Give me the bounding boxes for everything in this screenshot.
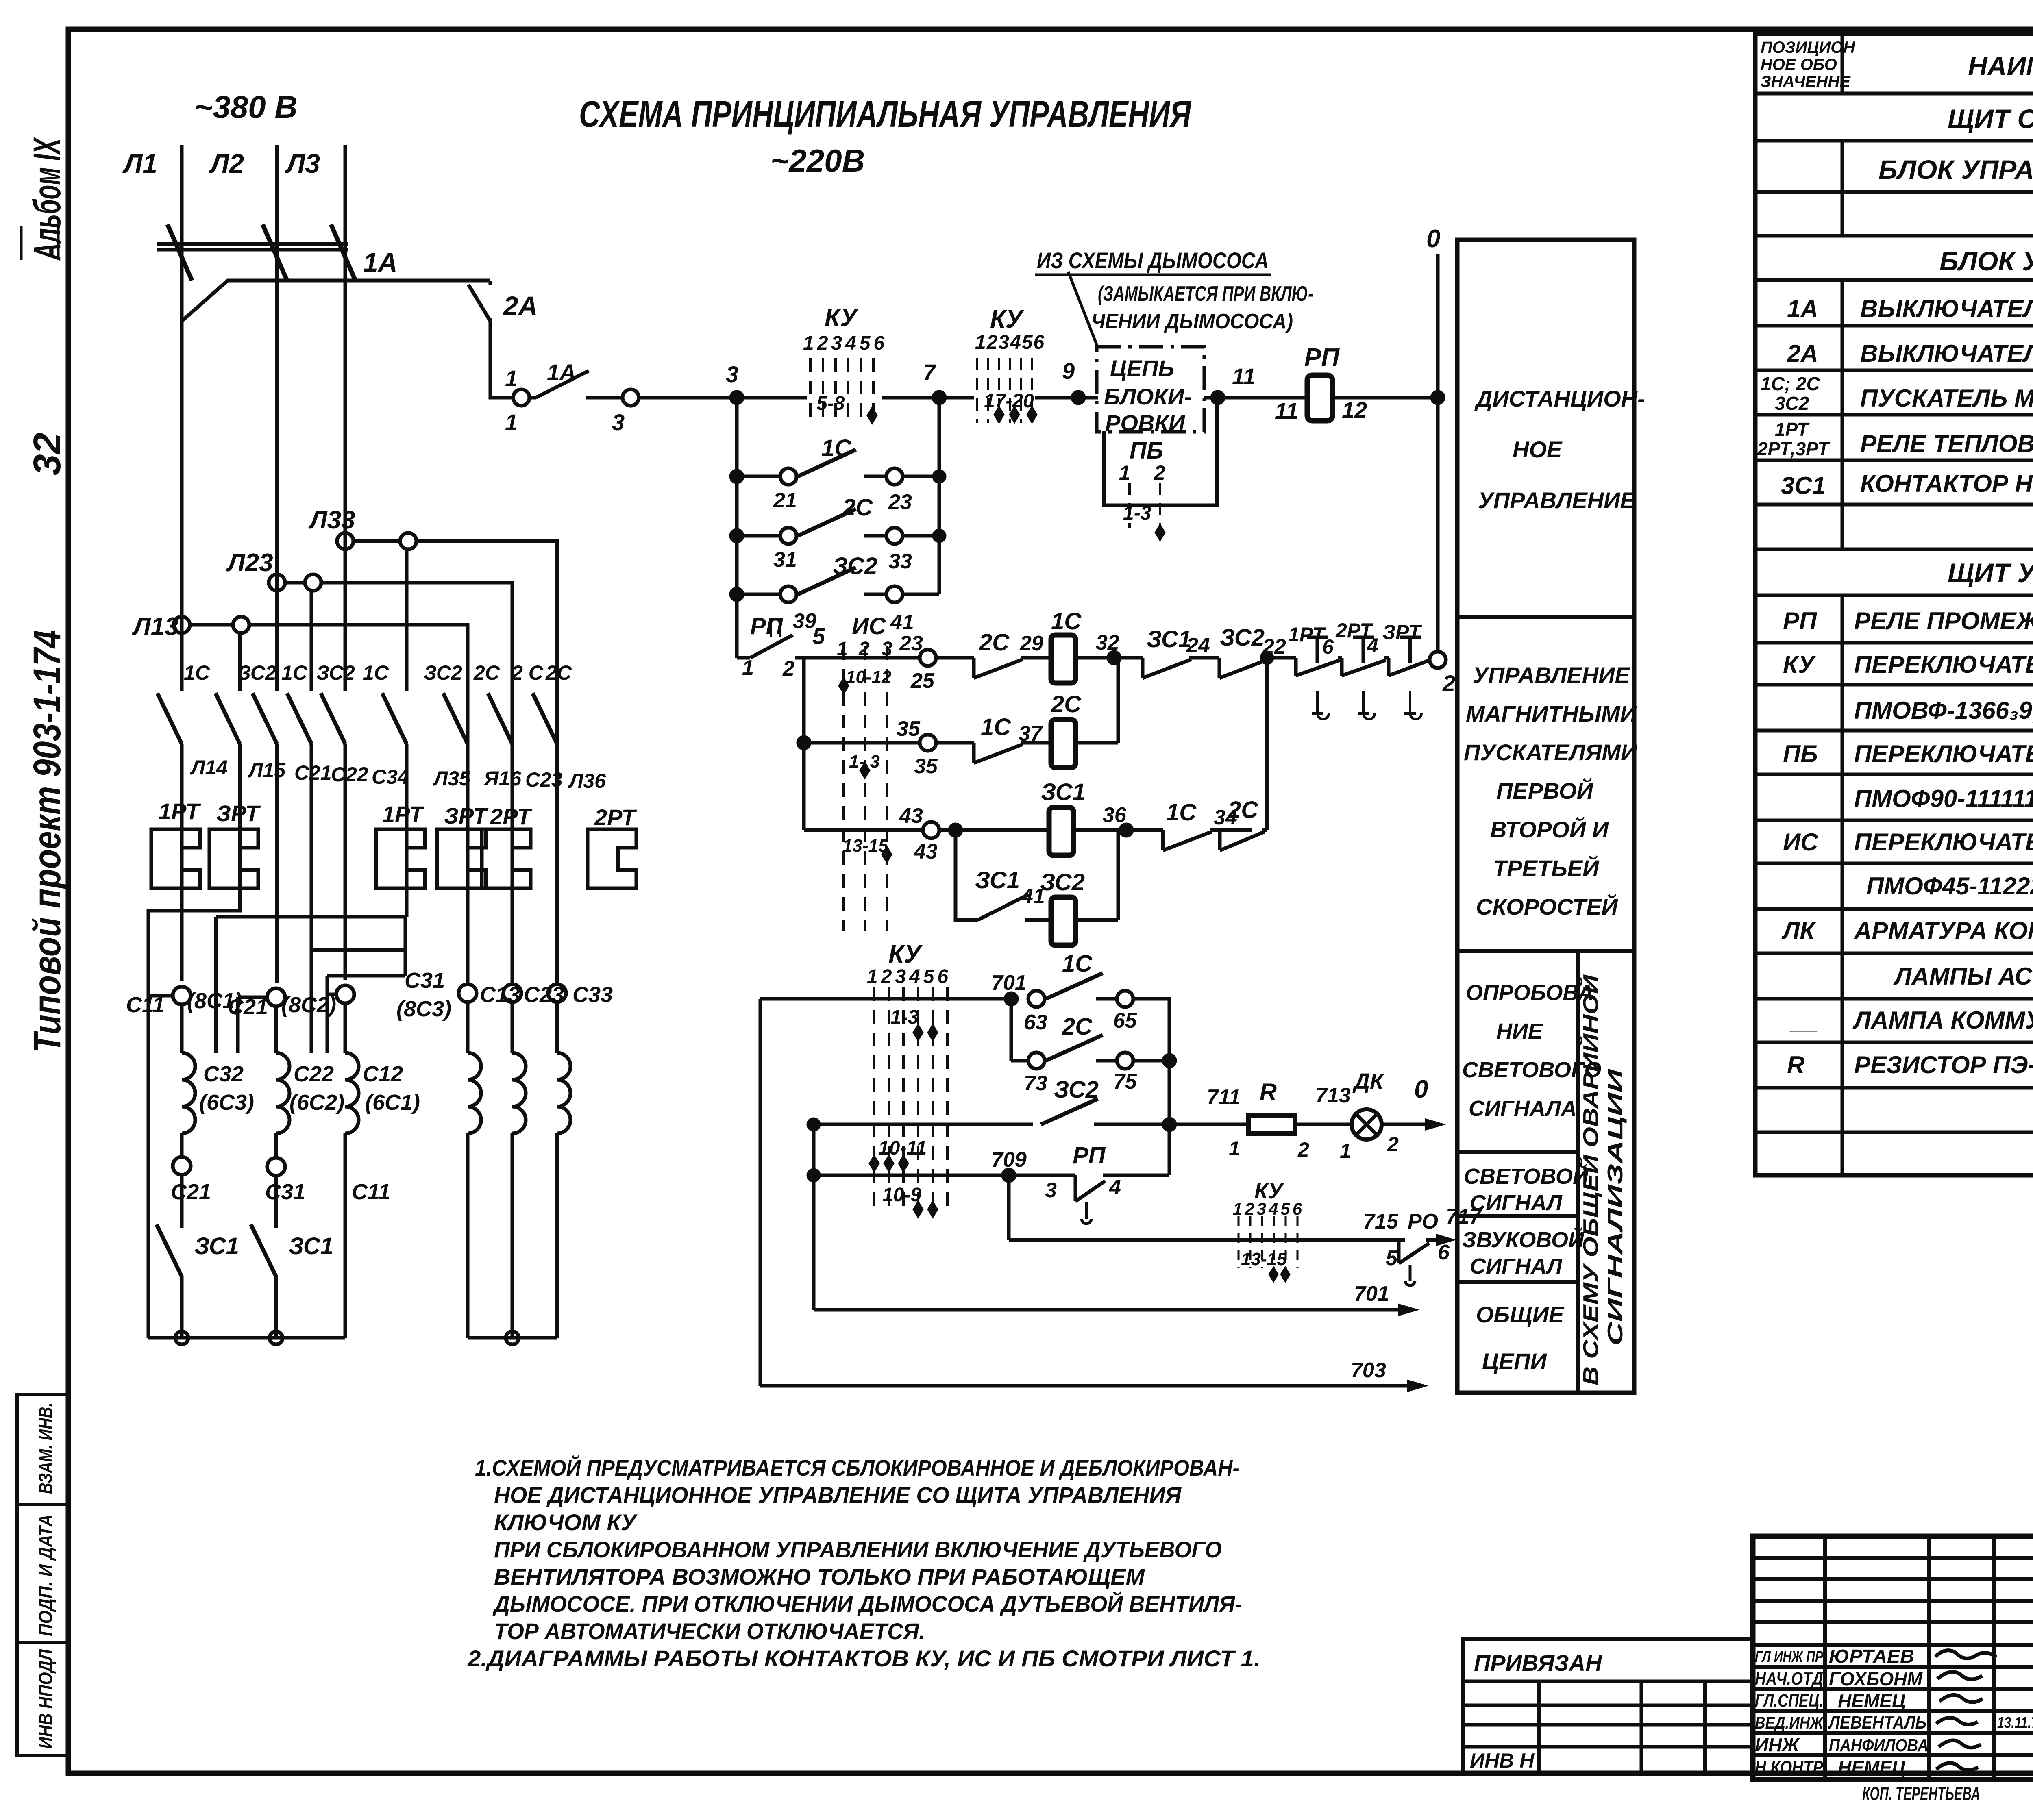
left margin strip box Vzam inv [17, 1394, 68, 1504]
L13 tap second circle [233, 617, 249, 633]
RP NC contact bottom of rail1 [737, 635, 804, 658]
svg-text:ВЫКЛЮЧАТЕЛЬ АВТОМАТИЧЕСКИЙ: ВЫКЛЮЧАТЕЛЬ АВТОМАТИЧЕСКИЙ [1860, 295, 2033, 322]
svg-text:ИНЖ: ИНЖ [1755, 1734, 1800, 1755]
feeder vertical 2 [812, 1124, 816, 1310]
coil on c1260 [512, 1002, 526, 1338]
ladder1 rail from junction3 [735, 398, 739, 658]
switch 1A blade [536, 371, 589, 398]
svg-text:БЛОК УПРАВЛЕНИЯ: БЛОК УПРАВЛЕНИЯ [1878, 154, 2033, 185]
title block upper-left small grid rows [1753, 1558, 2033, 1645]
svg-text:2.ДИАГРАММЫ РАБОТЫ КОНТАКТОВ: 2.ДИАГРАММЫ РАБОТЫ КОНТАКТОВ КУ, ИС И ПБ… [467, 1646, 1260, 1671]
right group C13 circle [459, 984, 477, 1002]
rail2 vertical [802, 658, 806, 830]
svg-text:С22: С22 [331, 763, 368, 786]
contactor 3C1 blade left [157, 1224, 182, 1276]
svg-text:Л3: Л3 [285, 148, 320, 178]
svg-text:НОЕ ОБО: НОЕ ОБО [1761, 56, 1837, 74]
circle C11 top [173, 987, 191, 1005]
svg-text:НИЕ: НИЕ [1496, 1019, 1543, 1044]
svg-text:ИНВ НПОДЛ: ИНВ НПОДЛ [35, 1649, 56, 1749]
svg-text:1: 1 [742, 656, 754, 680]
svg-text:1С: 1С [1062, 950, 1093, 977]
KU3 diamonds 1-3 [913, 1024, 938, 1041]
KU2 diamonds [994, 407, 1037, 423]
svg-text:4: 4 [1367, 634, 1378, 657]
right function-zone column [1457, 240, 1634, 1393]
wire box to node 11 [1204, 396, 1244, 400]
svg-text:37: 37 [1019, 722, 1043, 746]
thermal contact 2RT [1342, 637, 1389, 676]
circle C31 top [336, 985, 354, 1003]
svg-text:ПБ: ПБ [1130, 437, 1163, 464]
wire below bottom circles to 3C1 blades [182, 1175, 276, 1338]
svg-text:2А: 2А [503, 291, 538, 321]
wire R to lamp DK [1295, 1123, 1352, 1126]
main rung wire node7 to KU2 [939, 396, 974, 400]
svg-text:Л35: Л35 [433, 767, 471, 790]
svg-text:1С: 1С [281, 661, 308, 684]
svg-text:ГЛ ИНЖ ПР: ГЛ ИНЖ ПР [1755, 1648, 1824, 1666]
signal rung1 wire left [760, 997, 1004, 1001]
contact RP NO on zvukovoy line [1399, 1240, 1438, 1263]
KU5 diamonds [1269, 1267, 1290, 1282]
coil 3C1 [1049, 807, 1073, 855]
jog horizontal H2 from c766 [311, 948, 405, 952]
svg-text:3: 3 [612, 409, 625, 435]
zone divider oprobovanie / svetovoy [1457, 1150, 1578, 1154]
PB dashed contacts [1130, 483, 1160, 528]
svg-text:6: 6 [1438, 1241, 1450, 1264]
wire node3 circle to junction 3 [639, 396, 797, 400]
zone inner vertical for rotated text [1576, 951, 1580, 1393]
svg-text:13-15: 13-15 [1241, 1249, 1287, 1269]
svg-text:ВЕД.ИНЖ: ВЕД.ИНЖ [1755, 1713, 1824, 1732]
PB diamond [1155, 524, 1165, 541]
ladder1 rung1 dot [731, 471, 742, 482]
svg-text:ПОЗИЦИОН: ПОЗИЦИОН [1761, 39, 1855, 57]
svg-text:СИГНАЛ: СИГНАЛ [1470, 1254, 1563, 1279]
svg-text:1-3: 1-3 [890, 1007, 919, 1028]
svg-text:2РТ,3РТ: 2РТ,3РТ [1757, 438, 1831, 459]
resistor R [1249, 1115, 1295, 1134]
svg-text:2 С: 2 С [511, 661, 544, 684]
svg-text:23: 23 [899, 632, 923, 655]
contact column 1150 gap [466, 625, 470, 691]
rung1 circle 63 [1028, 991, 1045, 1007]
svg-text:711: 711 [1207, 1085, 1241, 1109]
KU3 diamonds 10-11 [869, 1155, 908, 1172]
thermal relay 1RT box c447 [151, 829, 200, 888]
title block outer [1753, 1536, 2033, 1779]
wire lamp to arrow 0 [1382, 1123, 1425, 1126]
arrowhead 717 [1436, 1234, 1455, 1246]
svg-text:ДЫМОСОСЕ. ПРИ ОТКЛЮЧЕНИИ ДЫМ: ДЫМОСОСЕ. ПРИ ОТКЛЮЧЕНИИ ДЫМОСОСА ДУТЬЕВ… [492, 1591, 1242, 1617]
svg-text:1А: 1А [547, 359, 576, 385]
svg-text:1С; 2С: 1С; 2С [1761, 373, 1820, 394]
svg-text:709: 709 [991, 1148, 1027, 1172]
svg-text:12: 12 [1342, 397, 1367, 423]
svg-text:5: 5 [1386, 1246, 1398, 1270]
junction 3 dot [731, 392, 742, 403]
svg-text:ДК: ДК [1352, 1069, 1385, 1094]
svg-text:НЕМЕЦ: НЕМЕЦ [1838, 1690, 1905, 1711]
svg-text:Л36: Л36 [568, 770, 606, 792]
svg-text:КУ: КУ [1783, 651, 1816, 678]
ladder1 rung2 wire right [864, 534, 939, 538]
svg-text:ПЕРЕКЛЮЧАТЕЛЬ: ПЕРЕКЛЮЧАТЕЛЬ [1854, 651, 2033, 678]
svg-text:1- 3: 1- 3 [849, 752, 880, 772]
circle C21 top [267, 988, 285, 1006]
riser rungB to rungA [1117, 658, 1120, 743]
svg-text:3С1: 3С1 [1781, 472, 1826, 499]
zone divider distantsionnoe / upravlenie [1457, 615, 1634, 619]
junction 22 dot [1262, 652, 1272, 663]
svg-text:123456: 123456 [803, 333, 888, 354]
rungB circle 35 [920, 735, 936, 751]
svg-text:УПРАВЛЕНИЕ: УПРАВЛЕНИЕ [1473, 662, 1630, 688]
svg-text:ЗС1: ЗС1 [289, 1233, 333, 1259]
breaker 1A blade on L2 [263, 224, 287, 281]
rungC wire to coil 3C1 [939, 828, 1049, 832]
svg-text:КОНТАКТОР НУЛЕВОЙ ТОЧКИ: КОНТАКТОР НУЛЕВОЙ ТОЧКИ [1860, 470, 2033, 497]
svg-text:17-20: 17-20 [984, 390, 1034, 412]
svg-text:РО: РО [1408, 1210, 1438, 1233]
svg-text:С23: С23 [525, 768, 563, 791]
node 9 junction dot [1073, 392, 1084, 403]
svg-text:29: 29 [1019, 632, 1043, 655]
right group C23 circle [503, 984, 521, 1002]
contact blades row (1C 3C2 groups) [157, 693, 557, 744]
svg-text:2С: 2С [1228, 797, 1258, 823]
bypass wire to coil 3C2 [1025, 918, 1051, 922]
svg-text:2РТ: 2РТ [594, 805, 637, 830]
drop 2487 to rung2 [1010, 999, 1013, 1061]
svg-text:Л2: Л2 [209, 148, 244, 178]
svg-text:9: 9 [1062, 358, 1075, 384]
rungC corner from rail2 [804, 828, 923, 832]
svg-text:715: 715 [1363, 1210, 1399, 1233]
svg-text:43: 43 [914, 840, 938, 863]
svg-text:ПМОФ45-112222 /П-Д1: ПМОФ45-112222 /П-Д1 [1866, 872, 2033, 900]
svg-text:ПМОФ90-111111 /П-Д42: ПМОФ90-111111 /П-Д42 [1854, 785, 2033, 812]
parts table grid [1755, 34, 2033, 1175]
KU1 diamond tip [867, 407, 877, 424]
bypass wire coil to riser [1075, 918, 1118, 922]
svg-text:1: 1 [1119, 461, 1130, 484]
svg-text:2РТ: 2РТ [490, 804, 533, 829]
line 701 out [814, 1308, 1399, 1312]
contact RP NO on rung4 [1075, 1175, 1169, 1201]
svg-text:33: 33 [888, 550, 912, 573]
svg-text:ИС: ИС [1783, 828, 1819, 856]
svg-text:1С: 1С [184, 661, 210, 684]
contact 1C NO blade [1046, 973, 1103, 999]
svg-text:36: 36 [1103, 803, 1127, 827]
coil 2C [1051, 720, 1075, 768]
contact column 1000 from L33 [405, 549, 409, 917]
contact 3C1 NC on rungA [1143, 658, 1219, 678]
svg-text:ТОР АВТОМАТИЧЕСКИ ОТКЛЮЧАЕТ: ТОР АВТОМАТИЧЕСКИ ОТКЛЮЧАЕТСЯ. [494, 1618, 925, 1644]
contact 2C NO blade [1046, 1035, 1103, 1061]
relay coil RP [1307, 375, 1332, 421]
ladder1 rung2 dot [731, 530, 742, 541]
coil on c849 [345, 1003, 359, 1338]
svg-text:11: 11 [1232, 363, 1256, 389]
svg-text:ЩИТ СИЛОВОЙ УПРАВЛЕНИЯ: ЩИТ СИЛОВОЙ УПРАВЛЕНИЯ [1948, 103, 2033, 134]
svg-text:ИНВ Н: ИНВ Н [1470, 1749, 1535, 1772]
svg-text:КОП. ТЕРЕНТЬЕВА: КОП. ТЕРЕНТЬЕВА [1862, 1783, 1980, 1804]
jog horizontal H3 [327, 974, 405, 978]
svg-text:С31: С31 [265, 1180, 305, 1204]
svg-text:СИГНАЛИЗАЦИИ: СИГНАЛИЗАЦИИ [1604, 1068, 1627, 1346]
rung4 wire to RP contact [1009, 1174, 1075, 1177]
junction rung2 right dot [1164, 1055, 1175, 1066]
L13 tap circle on L1 [174, 617, 190, 633]
svg-text:ПЕРЕКЛЮЧАТЕЛЬ УНИВЕРСАЛЬНЫЙ: ПЕРЕКЛЮЧАТЕЛЬ УНИВЕРСАЛЬНЫЙ [1854, 828, 2033, 856]
svg-text:Я16: Я16 [483, 767, 522, 790]
coil on c447 [182, 1005, 195, 1157]
main rung wire through KU1 to node7 [882, 396, 939, 400]
lamp DK circle [1352, 1109, 1382, 1139]
left margin strip box Podp i data [17, 1504, 68, 1642]
svg-text:ПРИ СБЛОКИРОВАННОМ УПРАВЛЕНИ: ПРИ СБЛОКИРОВАННОМ УПРАВЛЕНИИ ВКЛЮЧЕНИЕ … [494, 1537, 1222, 1562]
svg-text:Альбом ІХ: Альбом ІХ [26, 137, 69, 261]
stub to C21 circle [238, 997, 268, 1053]
svg-text:НОЕ: НОЕ [1513, 437, 1563, 462]
svg-text:1РТ: 1РТ [159, 798, 201, 824]
IS switch dashes [844, 646, 887, 931]
ladder1 rung3 circle right [886, 586, 903, 602]
lamp DK cross [1356, 1114, 1377, 1135]
svg-text:ГОХБОНМ: ГОХБОНМ [1829, 1668, 1923, 1690]
svg-text:3: 3 [726, 361, 738, 387]
svg-text:БЛОК УПРАВЛЕНИЯ: БЛОК УПРАВЛЕНИЯ [1939, 246, 2033, 276]
svg-text:ЗРТ: ЗРТ [444, 803, 489, 828]
KU group5 dashes [1239, 1216, 1297, 1268]
svg-text:УПРАВЛЕНИЕ: УПРАВЛЕНИЕ [1478, 487, 1636, 513]
svg-text:41: 41 [890, 611, 914, 634]
svg-text:22: 22 [1262, 635, 1286, 659]
svg-text:ЛК: ЛК [1781, 917, 1816, 944]
riser bypass to rungC [1117, 830, 1120, 920]
svg-text:СКОРОСТЕЙ: СКОРОСТЕЙ [1476, 894, 1618, 920]
line 703 out [760, 1384, 1408, 1388]
bottom bus left group [148, 1336, 345, 1340]
svg-text:2: 2 [1442, 670, 1455, 696]
svg-text:2: 2 [1154, 461, 1165, 484]
wire node1 to 1A contact [529, 396, 536, 400]
thermal relay 3RT box c1150 [437, 829, 486, 888]
bus circle at 679 [270, 1331, 283, 1344]
right group C33 circle [548, 984, 566, 1002]
svg-text:ЗРТ: ЗРТ [216, 800, 261, 826]
tsep blokirovki dash-dot box [1097, 347, 1204, 432]
svg-text:32: 32 [1096, 631, 1119, 655]
svg-text:1: 1 [505, 409, 518, 435]
svg-text:ЗС2: ЗС2 [238, 661, 276, 684]
title block signature rows [1753, 1667, 2033, 1755]
thermal relay 1RT box c1000 [376, 829, 425, 888]
rungA wire to 2C contact [936, 656, 974, 660]
privyazan columns [1539, 1681, 1705, 1773]
svg-text:Л23: Л23 [226, 549, 273, 577]
node 7 junction dot [934, 392, 945, 403]
svg-text:5: 5 [812, 623, 825, 649]
svg-text:R: R [1787, 1051, 1804, 1079]
svg-text:1С: 1С [821, 435, 852, 461]
svg-text:ПБ: ПБ [1783, 740, 1818, 768]
svg-text:2: 2 [858, 638, 870, 660]
svg-text:(8С3): (8С3) [396, 997, 451, 1021]
svg-text:С22: С22 [294, 1062, 334, 1086]
rungB left dot [798, 737, 810, 748]
bus circle at 1260 [506, 1331, 519, 1344]
svg-text:63: 63 [1024, 1011, 1047, 1034]
svg-text:С12: С12 [363, 1062, 403, 1086]
svg-text:КУ: КУ [990, 305, 1024, 333]
stub to C11 circle [148, 994, 174, 998]
rung1 circle 65 [1117, 991, 1133, 1007]
phase line L1 [180, 145, 184, 981]
drop 2876 to rung3 [1168, 1061, 1171, 1124]
svg-text:РП: РП [1783, 607, 1818, 635]
tap wire from L1 to 2A [182, 281, 490, 321]
svg-text:5-8: 5-8 [816, 393, 845, 414]
svg-text:РЕЛЕ ТЕПЛОВОЕ: РЕЛЕ ТЕПЛОВОЕ [1860, 430, 2033, 457]
svg-text:123456: 123456 [1233, 1199, 1304, 1218]
svg-text:701: 701 [991, 971, 1027, 995]
svg-text:1: 1 [505, 365, 518, 391]
thermal 3RT release tick [1404, 691, 1421, 719]
svg-text:0: 0 [1414, 1075, 1428, 1103]
svg-text:1РТ: 1РТ [1288, 623, 1326, 646]
svg-text:75: 75 [1113, 1070, 1137, 1094]
IS diamonds [839, 678, 892, 863]
svg-text:ВЗАМ. ИНВ.: ВЗАМ. ИНВ. [35, 1403, 56, 1494]
svg-text:1-3: 1-3 [1123, 502, 1151, 524]
svg-text:703: 703 [1351, 1359, 1386, 1382]
RP contact release hook [771, 619, 780, 637]
svg-text:24: 24 [1186, 634, 1210, 657]
ladder1 rung3 wire right [864, 593, 939, 596]
node 1 circle [513, 389, 529, 406]
rungA wire coil to dot32 [1075, 656, 1143, 660]
contact 1C NC on rungB [974, 743, 1051, 763]
rung2 circle 73 [1028, 1052, 1045, 1069]
svg-text:ЩИТ УПРАВЛЕНИЯ: ЩИТ УПРАВЛЕНИЯ [1948, 558, 2033, 588]
svg-text:ОПРОБОВА: ОПРОБОВА [1466, 981, 1593, 1005]
ladder1 rung2 wire left [737, 534, 780, 538]
svg-text:С34: С34 [372, 765, 409, 788]
ladder1 rung1 blade 1C [798, 450, 856, 476]
main rung wire junction3 to KU1 [736, 396, 807, 400]
contactor 3C1 blade right [251, 1224, 276, 1276]
callout leader line [1068, 272, 1098, 348]
svg-text:ИС: ИС [852, 613, 886, 639]
rung3 feeder dot [808, 1119, 819, 1130]
node 3 circle [623, 389, 639, 406]
ladder1 rung3 wire left [737, 593, 780, 596]
svg-text:2А: 2А [1787, 340, 1818, 367]
svg-text:1С: 1С [981, 714, 1011, 740]
svg-text:Л15: Л15 [248, 759, 286, 782]
coil 3C2 [1051, 897, 1075, 945]
ladder1 rung3 dot [731, 589, 742, 600]
rungB wire left [804, 741, 920, 745]
svg-text:СВЕТОВОЙ: СВЕТОВОЙ [1464, 1163, 1589, 1189]
svg-text:ЗВУКОВОЙ: ЗВУКОВОЙ [1462, 1227, 1585, 1252]
svg-text:НАЧ.ОТД: НАЧ.ОТД [1755, 1669, 1823, 1689]
L33 tap second circle [400, 533, 416, 549]
svg-text:Л14: Л14 [190, 756, 228, 779]
rungA wire left [804, 656, 920, 660]
svg-text:БЛОКИ-: БЛОКИ- [1104, 384, 1192, 409]
svg-text:КЛЮЧОМ КУ: КЛЮЧОМ КУ [494, 1509, 638, 1535]
svg-text:МАГНИТНЫМИ: МАГНИТНЫМИ [1466, 701, 1637, 726]
left margin strip box Inv N podl [17, 1642, 68, 1755]
svg-text:11: 11 [1275, 398, 1298, 424]
svg-text:КУ: КУ [825, 304, 859, 332]
jog vertical 805 [326, 976, 329, 1053]
contact column 766 from L23 [310, 591, 313, 1053]
title block [1753, 1536, 2033, 1779]
contact 3C1 NO blade on bypass [978, 894, 1029, 920]
thermal 2RT release tick [1358, 691, 1375, 719]
breaker 1A blade on L3 [331, 224, 355, 281]
svg-text:1С: 1С [1166, 799, 1197, 826]
svg-text:НАИМЕНОВАНИЕ: НАИМЕНОВАНИЕ [1968, 51, 2033, 81]
svg-text:__: __ [1789, 1007, 1818, 1034]
rungC wire coil to contacts [1073, 828, 1163, 832]
thermal 1RT release tick [1312, 691, 1329, 719]
svg-text:СИГНАЛА: СИГНАЛА [1469, 1096, 1577, 1121]
node7 vertical rail [938, 398, 941, 594]
svg-text:РП: РП [1304, 344, 1340, 372]
svg-text:РП: РП [750, 613, 784, 639]
svg-text:2С: 2С [473, 661, 500, 684]
callout underline [1035, 274, 1271, 276]
svg-text:(6С3): (6С3) [199, 1090, 254, 1115]
svg-text:23: 23 [888, 490, 912, 514]
contact 3C2 NO blade [1041, 1099, 1098, 1124]
node7 rail junction dots [934, 471, 945, 482]
svg-text:СХЕМА ПРИНЦИПИАЛЬНАЯ УПРАВЛЕ: СХЕМА ПРИНЦИПИАЛЬНАЯ УПРАВЛЕНИЯ [579, 94, 1191, 135]
svg-text:43: 43 [899, 804, 923, 828]
svg-text:РЕЛЕ ПРОМЕЖУТОЧНОЕ РП-256: РЕЛЕ ПРОМЕЖУТОЧНОЕ РП-256 [1854, 607, 2033, 635]
coil on c1150 [468, 1002, 481, 1338]
svg-text:ЮРТАЕВ: ЮРТАЕВ [1829, 1646, 1914, 1667]
table column line pos/obozn [1841, 34, 1844, 1175]
L33 tap wire [353, 541, 557, 985]
coil on c1370 [557, 1002, 570, 1338]
rung4 709 wire left [814, 1174, 1009, 1177]
svg-text:ЛАМПА КОММУТАТОРНАЯ КМ-5: ЛАМПА КОММУТАТОРНАЯ КМ-5 [1852, 1007, 2033, 1034]
jog vertical 531 [214, 917, 218, 1053]
ladder1 rung3 circle left [780, 586, 797, 602]
svg-text:НОЕ ДИСТАНЦИОННОЕ УПРАВЛЕНИЕ: НОЕ ДИСТАНЦИОННОЕ УПРАВЛЕНИЕ СО ЩИТА УПР… [494, 1482, 1182, 1508]
thermal contact 3RT [1389, 637, 1430, 676]
RP zvukovoy hammer [1405, 1265, 1415, 1285]
node 11 junction dot [1212, 392, 1223, 403]
svg-text:~220В: ~220В [771, 143, 865, 178]
privyazan sub-table [1463, 1639, 1753, 1773]
svg-text:3С2: 3С2 [1775, 393, 1809, 414]
ladder1 rung2 circle right [886, 528, 903, 544]
svg-text:ЗС2: ЗС2 [316, 661, 355, 684]
svg-text:1: 1 [1340, 1139, 1351, 1162]
L23 tap second circle [305, 574, 321, 591]
svg-text:ЗС1: ЗС1 [1041, 779, 1086, 805]
